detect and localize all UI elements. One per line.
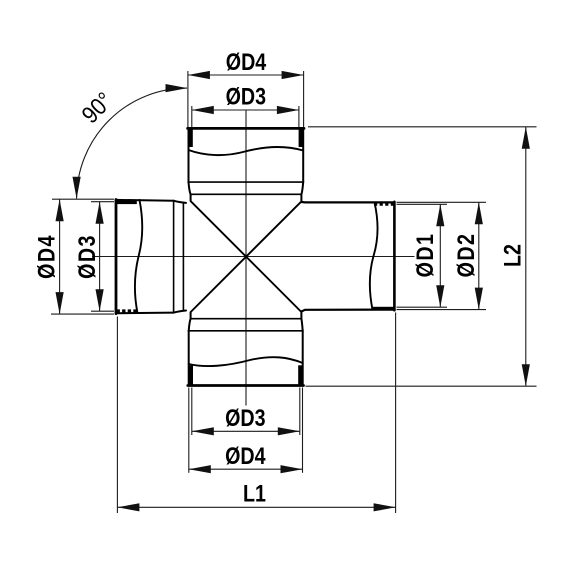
svg-text:ØD1: ØD1 (411, 233, 438, 278)
svg-text:ØD3: ØD3 (226, 83, 266, 110)
svg-text:L1: L1 (243, 480, 266, 507)
svg-text:ØD4: ØD4 (33, 234, 60, 279)
svg-text:ØD3: ØD3 (225, 404, 265, 431)
svg-text:ØD2: ØD2 (452, 233, 479, 278)
svg-text:ØD4: ØD4 (226, 48, 267, 75)
svg-text:ØD3: ØD3 (73, 234, 100, 279)
svg-text:L2: L2 (499, 244, 526, 267)
svg-text:ØD4: ØD4 (225, 442, 266, 469)
